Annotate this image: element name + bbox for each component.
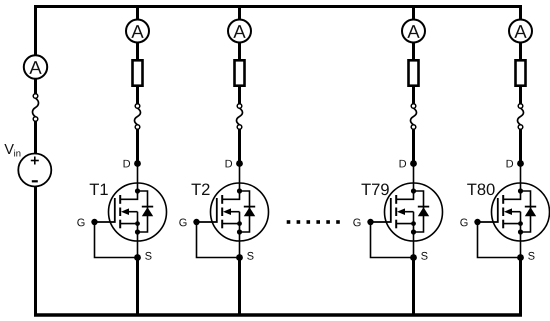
label Vin [4,144,20,156]
wire: drain lead into MOSFET T80 [520,164,522,192]
wire: branch T79 from top rail to break [412,5,415,104]
resistor (branch T80) [516,60,526,85]
wire: branch T1 from break to drain node [136,129,139,163]
node S (source) of T80 [517,252,534,261]
break symbol (branch T2 wire) [237,104,243,130]
ammeter A (branch T79) [402,20,425,43]
label T79 [361,183,388,195]
wire: gate of T1 to source node [95,222,138,258]
wire: gate of T2 to source node [197,222,240,258]
node S (source) of T2 [236,252,253,261]
resistor (branch T79) [409,60,419,85]
node G (gate) of T79 [353,219,373,227]
wire: branch T80 from break to drain node [519,129,522,163]
wire: MOSFET T80 bottom to source node [520,232,522,258]
ammeter A (branch T2) [228,20,251,43]
break symbol (branch T79 wire) [411,104,417,130]
resistor (branch T1) [133,60,143,85]
wire: bottom rail [34,313,522,316]
wire: MOSFET T2 bottom to source node [239,232,241,258]
ammeter A (branch T80) [509,20,532,43]
wire: left branch lower segment [34,121,37,317]
break symbol (left branch wire) [33,94,39,122]
wire: source of T1 down to bottom rail [136,258,139,316]
wire: drain lead into MOSFET T1 [137,164,139,192]
voltage source Vin [18,154,51,187]
ammeter A (input current, left branch) [24,55,47,78]
wire: left branch upper segment [34,5,37,94]
node D (drain) of T79 [400,160,417,168]
wire: branch T2 from break to drain node [238,129,241,163]
wire: gate of T79 to source node [371,222,414,258]
transistor T2 (N-channel MOSFET with body diode) [197,183,269,241]
ellipsis dots (branches T3 ... T78 omitted) [287,220,340,224]
wire: MOSFET T79 bottom to source node [413,232,415,258]
transistor T79 (N-channel MOSFET with body diode) [371,183,443,241]
wire: source of T79 down to bottom rail [412,258,415,316]
transistor T1 (N-channel MOSFET with body diode) [95,183,167,241]
node G (gate) of T2 [179,219,199,227]
wire: branch T1 from top rail to break [136,5,139,104]
wire: source of T80 down to bottom rail [519,258,522,316]
node S (source) of T1 [134,252,151,261]
wire: drain lead into MOSFET T79 [413,164,415,192]
wire: top rail [34,5,522,8]
node S (source) of T79 [410,252,427,261]
break symbol (branch T80 wire) [518,104,524,130]
resistor (branch T2) [235,60,245,85]
node G (gate) of T80 [460,219,480,227]
node D (drain) of T1 [124,160,141,168]
wire: gate of T80 to source node [478,222,521,258]
label T80 [467,183,494,195]
wire: drain lead into MOSFET T2 [239,164,241,192]
wire: source of T2 down to bottom rail [238,258,241,316]
wire: MOSFET T1 bottom to source node [137,232,139,258]
ammeter A (branch T1) [126,20,149,43]
break symbol (branch T1 wire) [135,104,141,130]
wire: branch T79 from break to drain node [412,129,415,163]
node G (gate) of T1 [77,219,97,227]
wire: branch T80 from top rail to break [519,5,522,104]
transistor T80 (N-channel MOSFET with body diode) [478,183,550,241]
node D (drain) of T80 [507,160,524,168]
wire: branch T2 from top rail to break [238,5,241,104]
node D (drain) of T2 [226,160,243,168]
label T1 [90,184,108,195]
label T2 [191,183,209,195]
